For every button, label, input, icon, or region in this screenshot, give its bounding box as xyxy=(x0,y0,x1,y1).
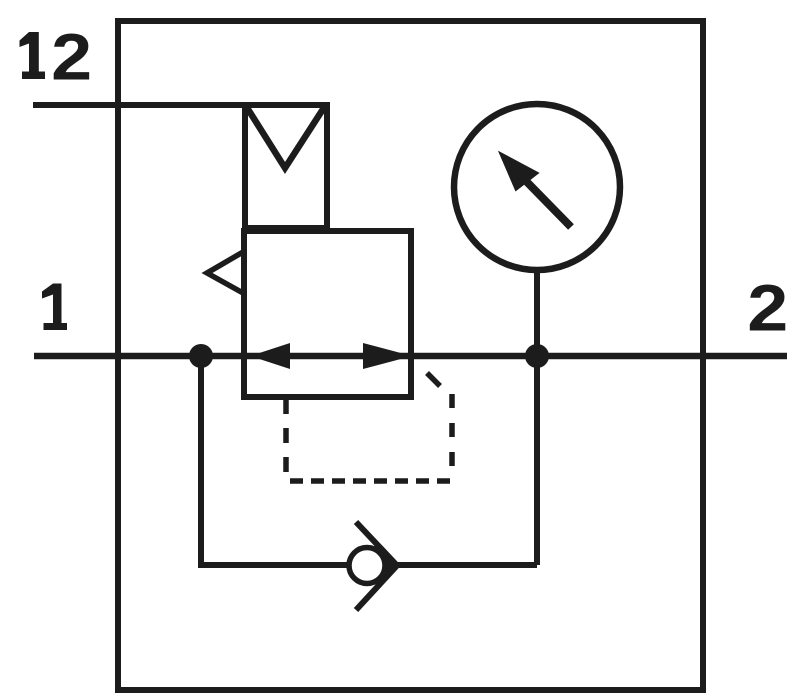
gauge body xyxy=(454,104,620,270)
check valve seat wedge xyxy=(381,548,398,583)
main flow line port1 to port2 xyxy=(34,353,787,360)
gauge needle head xyxy=(498,151,540,192)
junction dot right xyxy=(525,344,549,368)
check valve seat xyxy=(356,522,397,610)
gauge stem wire xyxy=(534,270,540,565)
spring chevron xyxy=(246,106,325,168)
regulator body U1 xyxy=(244,231,411,397)
check valve ball xyxy=(349,548,385,584)
dashed pilot left vertical xyxy=(283,399,289,481)
pilot port line 12 xyxy=(33,102,248,108)
adjustment arrow xyxy=(207,252,243,293)
enclosure box xyxy=(118,21,703,690)
right arrowhead xyxy=(363,343,412,369)
bypass wire xyxy=(198,562,537,568)
junction dot left xyxy=(189,344,213,368)
svg-text:2: 2 xyxy=(747,271,788,345)
dashed pilot right vertical xyxy=(449,394,455,481)
port label 12 digit 1 xyxy=(20,32,46,79)
dashed pilot diagonal xyxy=(427,373,440,386)
spring box xyxy=(245,105,327,228)
port label 1 xyxy=(42,284,67,331)
dashed pilot bottom horizontal xyxy=(290,478,452,484)
svg-text:2: 2 xyxy=(51,20,92,94)
left branch wire xyxy=(198,356,204,565)
gauge needle shaft xyxy=(526,181,571,227)
left arrowhead xyxy=(250,343,290,369)
